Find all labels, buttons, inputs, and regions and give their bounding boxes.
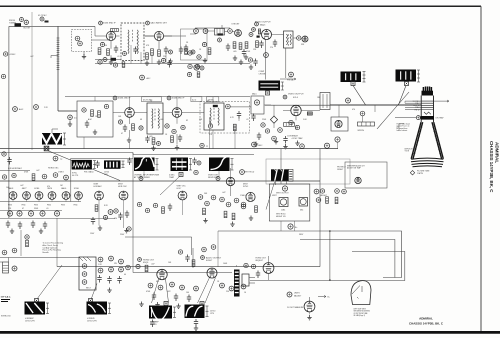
- svg-text:5W: 5W: [114, 263, 117, 265]
- svg-text:6AL5 RATIO DET: 6AL5 RATIO DET: [151, 22, 168, 25]
- svg-text:+105: +105: [288, 77, 292, 79]
- label W2: [87, 318, 97, 323]
- plug P1: [351, 82, 355, 86]
- wire bus y181: [0, 180, 320, 182]
- tube V407 phase det: [95, 191, 104, 200]
- wire grid lead long: [404, 101, 406, 103]
- wire resp stems: [144, 171, 219, 176]
- svg-text:4.5: 4.5: [74, 118, 77, 120]
- resistor R202: [98, 111, 101, 118]
- resistor R201: [91, 110, 94, 117]
- pointer V501 to photo W3 right: [166, 279, 169, 303]
- bracket sync photo: [93, 161, 96, 169]
- ground m1: [139, 302, 143, 307]
- wire plus105: [280, 78, 296, 80]
- test point focus2: [287, 292, 292, 297]
- test point u3: [211, 245, 216, 250]
- test point v4: [289, 120, 293, 124]
- svg-text:220: 220: [163, 56, 166, 58]
- test point TP1: [20, 18, 24, 22]
- wire bus y267: [57, 266, 320, 268]
- CRT base cap: [422, 91, 434, 96]
- wire loop B: [300, 240, 395, 278]
- test point rect a: [82, 264, 87, 269]
- svg-text:470: 470: [47, 186, 50, 188]
- test point V202 a: [165, 124, 169, 128]
- wire hosc wiring: [99, 200, 124, 228]
- capacitor C204: [237, 111, 241, 119]
- resistor R407: [162, 207, 165, 214]
- test point u1: [178, 250, 182, 254]
- svg-text:6AU6: 6AU6: [61, 187, 67, 190]
- svg-text:TRAP: TRAP: [169, 176, 175, 179]
- peaking coil box L3: [320, 93, 330, 110]
- wire audio vert 1: [265, 40, 267, 80]
- yoke box: [331, 117, 348, 131]
- ground row2 a: [10, 229, 14, 234]
- black mark M1: [111, 58, 117, 61]
- resistor R501: [145, 265, 148, 272]
- ground m3: [176, 304, 180, 309]
- tube V102 ratio det: [154, 31, 163, 40]
- pointer photo B: [160, 177, 180, 196]
- test point resp A: [139, 177, 143, 181]
- svg-text:VIDEO OUTPUT: VIDEO OUTPUT: [288, 94, 304, 96]
- photo waveform horiz sawtooth: [25, 302, 46, 315]
- capacitor C603: [117, 276, 121, 284]
- tube V410 vert osc: [178, 191, 187, 200]
- plug photo W4: [200, 302, 204, 306]
- resistor R103: [158, 50, 161, 57]
- capacitor C401: [118, 213, 122, 221]
- svg-text:117 V.A.C.: 117 V.A.C.: [1, 296, 12, 299]
- svg-text:6U8 HORIZ AFC: 6U8 HORIZ AFC: [8, 167, 23, 170]
- svg-text:82: 82: [186, 120, 188, 122]
- resistor R107: [245, 42, 248, 49]
- wire tp stem: [327, 142, 338, 149]
- resistor R104 volume control: [215, 29, 225, 36]
- svg-text:4.5MC: 4.5MC: [10, 54, 16, 56]
- label cage note: [276, 214, 286, 218]
- border bottom edge: [0, 331, 500, 334]
- video det shield dashed box: [200, 102, 250, 134]
- capacitor C105: [273, 40, 277, 48]
- test point J1 tip: [75, 36, 80, 41]
- capacitor C506: [194, 319, 198, 327]
- component value labels group 2: [6, 185, 328, 294]
- photo bar pattern: [104, 160, 121, 168]
- capacitor C202: [123, 125, 127, 133]
- test point sound if: [99, 21, 103, 25]
- wire yoke diagonal lead: [48, 151, 121, 181]
- wire delay line tap: [51, 56, 58, 59]
- transformer T102 quad coil: [284, 31, 294, 48]
- resistor R206 brightness: [307, 112, 312, 115]
- ground jack: [82, 54, 86, 59]
- svg-text:AGC: AGC: [19, 108, 24, 111]
- test point de-emphasis: [228, 29, 233, 34]
- label crt note: [397, 123, 411, 133]
- black mark mixer: [218, 33, 223, 35]
- test point V104 grid: [249, 33, 253, 37]
- test point resp C: [216, 177, 220, 181]
- frequency box 42.25MC: [191, 97, 202, 102]
- capacitor C503: [187, 295, 191, 303]
- label ion trap box: [347, 165, 365, 170]
- test point vo1: [137, 202, 141, 206]
- svg-text:UNITS: UNITS: [294, 293, 300, 295]
- ground hosc 1: [98, 226, 102, 231]
- svg-text:6AQ5: 6AQ5: [260, 23, 266, 26]
- label W4: [210, 311, 215, 316]
- test point ho: [138, 258, 142, 262]
- test point bias: [248, 58, 252, 62]
- svg-text:6V6GT: 6V6GT: [206, 260, 213, 262]
- svg-text:PIN 12: PIN 12: [414, 109, 419, 111]
- wire hv bus drop: [339, 105, 375, 122]
- bracket resp B: [189, 159, 192, 171]
- test point in1: [2, 250, 7, 255]
- test point h5: [64, 175, 69, 180]
- test point B plus: [288, 224, 293, 229]
- test point vert lin 2: [342, 189, 347, 194]
- label hor osc: [118, 184, 127, 189]
- wire loop C: [250, 252, 405, 281]
- resistor R105: [233, 42, 236, 49]
- ground m2: [155, 302, 159, 307]
- resistor R101: [107, 49, 110, 56]
- capacitor C502: [174, 294, 178, 302]
- wire left rail vertical: [8, 26, 10, 218]
- resistor R205: [233, 124, 236, 131]
- picture tube side view: [351, 281, 371, 305]
- svg-text:LEFT SIDE VIEW: LEFT SIDE VIEW: [354, 309, 367, 311]
- capacitor C109: [242, 49, 246, 57]
- svg-text:T3: T3: [207, 101, 209, 103]
- capacitor C106: [253, 59, 257, 67]
- capacitor C304: [7, 157, 11, 165]
- test point B+ boost: [346, 98, 351, 103]
- test point audio takeoff: [203, 29, 208, 34]
- test point mx3: [191, 50, 195, 54]
- tube V404 3BZ6 heater: [48, 192, 56, 200]
- ground sync: [249, 216, 253, 221]
- svg-text:HORIZ OSC: HORIZ OSC: [48, 168, 59, 170]
- resistor R404: [203, 208, 206, 215]
- vertical output cage box: [269, 184, 310, 221]
- svg-text:120: 120: [114, 218, 117, 220]
- test point hv2: [251, 264, 255, 268]
- terminal bracket T105: [417, 70, 420, 82]
- test point ps3: [119, 259, 124, 264]
- capacitor C101: [114, 46, 118, 54]
- transformer T502 audio output: [234, 270, 240, 297]
- transformer T202 video det can: [204, 103, 224, 130]
- resistor R115: [197, 72, 200, 78]
- ground disc2: [239, 60, 243, 65]
- wire yoke diag to crt: [377, 92, 409, 129]
- test point row2 4: [40, 211, 45, 216]
- transformer T301 flyback: [271, 169, 293, 181]
- svg-text:VERT OUTPUT: VERT OUTPUT: [276, 193, 290, 195]
- test point m2: [148, 283, 153, 288]
- svg-text:HOR OSC: HOR OSC: [118, 186, 127, 188]
- test point t2: [169, 50, 173, 54]
- wire top row bus: [95, 63, 250, 65]
- capacitor C201: [85, 121, 89, 129]
- resistor R401: [32, 174, 35, 181]
- resistor R114: [122, 62, 125, 68]
- label yoke: [405, 149, 416, 153]
- test point audio out: [255, 22, 259, 26]
- svg-text:be viewed from: be viewed from: [397, 128, 408, 130]
- svg-text:OF PICTURE TUBE: OF PICTURE TUBE: [354, 313, 368, 315]
- svg-text:6DQ6: 6DQ6: [143, 262, 149, 264]
- capacitor C402: [125, 211, 129, 219]
- test point T45: [40, 17, 44, 21]
- wire antenna to rail: [9, 25, 95, 27]
- label resp C: [208, 175, 219, 180]
- test point volume: [194, 29, 199, 34]
- test point pin2A: [289, 72, 294, 77]
- wire ps wiring: [0, 258, 79, 263]
- svg-text:HEIGHT LIN: HEIGHT LIN: [276, 216, 286, 218]
- bracket W2: [108, 303, 111, 314]
- wire hv rect leads: [268, 256, 270, 280]
- svg-text:DO NOT MEASURE: DO NOT MEASURE: [287, 306, 304, 309]
- test point 6.3V: [335, 137, 340, 142]
- tube V501 horiz output: [157, 269, 167, 279]
- photo marker bands: [171, 158, 189, 172]
- wire IF row top bus: [65, 96, 250, 98]
- test point ps5: [109, 267, 114, 272]
- wire y237 link: [125, 237, 192, 255]
- photo waveform audio: [185, 305, 205, 319]
- test point hosc d: [103, 215, 107, 219]
- capacitor C110: [167, 60, 171, 68]
- svg-text:.047: .047: [151, 264, 155, 266]
- plug photo W3: [164, 302, 168, 306]
- test point t1: [123, 52, 127, 56]
- tube V103a triode: [235, 30, 242, 37]
- label focus note: [43, 242, 63, 255]
- wire delay tap stem: [69, 120, 71, 123]
- capacitor C207: [145, 136, 149, 144]
- test point n2: [226, 202, 231, 207]
- wire cage bus: [217, 231, 219, 267]
- tube V403 6CB6 heater: [35, 192, 43, 200]
- label crt type: [417, 171, 430, 175]
- ground r mid: [203, 218, 207, 223]
- tube V203 video output: [291, 105, 301, 115]
- component value labels group 1: [30, 42, 355, 122]
- pointer to photo W2: [91, 284, 97, 300]
- converter test point M1: [24, 20, 28, 24]
- transformer T101 sound IF: [121, 23, 144, 61]
- CRT neck walls: [421, 96, 433, 123]
- wire main bus y148: [0, 148, 338, 150]
- svg-text:250: 250: [226, 291, 229, 293]
- tube V408 horiz osc: [119, 191, 128, 200]
- svg-text:40: 40: [124, 274, 126, 276]
- tube V305 phase det: [355, 177, 361, 183]
- phono jack dashed box: [72, 30, 92, 52]
- svg-text:.01: .01: [46, 208, 49, 210]
- test point video out: [283, 95, 287, 99]
- wire audio link: [272, 35, 303, 39]
- wire loop A: [218, 231, 402, 278]
- socket V301 vertical output: [279, 198, 288, 207]
- svg-text:4.5 MC TRAP: 4.5 MC TRAP: [292, 137, 304, 140]
- resistor R110: [98, 48, 101, 55]
- test point V105: [264, 53, 269, 58]
- wire video wiring: [264, 105, 320, 130]
- svg-text:PIN4: PIN4: [47, 205, 51, 207]
- wire bus y272: [133, 272, 232, 274]
- svg-text:.01: .01: [117, 56, 120, 58]
- wire rail x133: [132, 153, 134, 273]
- svg-text:ADMIRAL: ADMIRAL: [495, 142, 500, 163]
- ground t2: [168, 59, 172, 64]
- diode X201 black mark: [213, 105, 218, 107]
- svg-text:T2: T2: [150, 101, 152, 103]
- svg-text:.047: .047: [222, 192, 226, 194]
- test point rect c: [82, 280, 87, 285]
- svg-text:12B4: 12B4: [281, 210, 285, 212]
- tube V405 6AU6 heater: [62, 192, 70, 200]
- test point v1: [261, 123, 265, 127]
- test point h4: [53, 173, 58, 178]
- labels tube row1 bottom: [8, 205, 77, 207]
- svg-text:16: 16: [244, 292, 246, 294]
- test point sub8: [103, 58, 107, 62]
- svg-text:6CB6 3RD IF: 6CB6 3RD IF: [172, 98, 185, 100]
- svg-text:3CB6: 3CB6: [74, 188, 80, 190]
- svg-text:AT TUNER MIXER: AT TUNER MIXER: [134, 176, 150, 179]
- svg-text:60 CPS: 60 CPS: [72, 175, 79, 177]
- test point vert hold 2: [335, 189, 340, 194]
- test point h3: [42, 174, 47, 179]
- ground V101 cathode: [109, 60, 113, 65]
- bracket W3: [173, 307, 176, 318]
- svg-text:CHASSIS 14YP3B, BK, C: CHASSIS 14YP3B, BK, C: [489, 141, 494, 193]
- label audio out2: [206, 257, 222, 263]
- wire V201 wiring: [113, 113, 147, 138]
- svg-text:.005: .005: [149, 136, 153, 138]
- wire rail x320: [319, 149, 321, 267]
- wire crt video feed: [265, 104, 421, 106]
- wire damper leads: [310, 295, 327, 301]
- svg-text:BOOST: BOOST: [24, 28, 31, 30]
- tube V202 3rd IF: [172, 108, 182, 118]
- resistor R111: [146, 53, 149, 60]
- ground row2 b: [39, 229, 43, 234]
- capacitor C507: [256, 271, 260, 279]
- pointer V502 to photo W4 right: [205, 278, 216, 304]
- wire audio couple: [190, 31, 235, 34]
- diamond sound takeoff X1: [270, 116, 277, 123]
- wire heater stubs: [13, 199, 79, 201]
- wire V102 leads: [145, 36, 172, 49]
- photo video response: [209, 156, 230, 171]
- svg-text:47: 47: [22, 208, 24, 210]
- capacitor C203: [178, 135, 182, 143]
- resistor R108: [256, 41, 259, 48]
- plug photo W2: [89, 299, 93, 303]
- capacitor C405: [31, 221, 35, 229]
- wire IF bus risers: [95, 97, 213, 108]
- plug photo B: [179, 173, 183, 177]
- svg-text:PIN3: PIN3: [34, 205, 38, 207]
- capacitor C406: [43, 222, 47, 230]
- test point sub1: [98, 60, 102, 64]
- photo IF response curve: [134, 156, 155, 171]
- frequency box 45.75MC: [142, 97, 162, 102]
- rectifier box: [79, 257, 96, 290]
- resistor R113: [185, 49, 188, 55]
- CRT funnel hatching: [413, 127, 442, 154]
- ground ps: [107, 288, 111, 293]
- wire noise wiring: [230, 168, 232, 196]
- terminal bracket yoke: [63, 133, 66, 145]
- test point ps4: [98, 268, 103, 273]
- resistor R112: [208, 48, 211, 55]
- test point sub6: [195, 64, 199, 68]
- high voltage cage box: [266, 159, 350, 184]
- balun transformer L1: [15, 23, 22, 27]
- terminal bracket T104: [363, 72, 366, 83]
- label resp A: [134, 174, 160, 180]
- test point if2: [157, 142, 161, 146]
- svg-text:270: 270: [270, 47, 273, 49]
- wire focus drop: [20, 230, 22, 256]
- CRT ion trap band: [421, 116, 435, 120]
- test point v5: [295, 125, 299, 129]
- test point m4: [170, 282, 175, 287]
- bracket resp C: [231, 159, 234, 171]
- test point V201 grid: [118, 120, 122, 124]
- label bar photo: [104, 172, 109, 176]
- svg-text:68: 68: [140, 119, 142, 121]
- wire V101 plate: [110, 41, 112, 60]
- wire bus y170: [0, 169, 30, 171]
- test point row2 3: [28, 211, 33, 216]
- wire secondary bus y152: [0, 153, 254, 155]
- ground t1: [145, 61, 149, 66]
- svg-text:1 MEG: 1 MEG: [240, 195, 246, 197]
- test point height: [314, 189, 319, 194]
- test point m6: [194, 286, 199, 291]
- test point 3rd IF: [167, 96, 171, 100]
- test point in2: [12, 248, 17, 253]
- svg-text:ION TRAP: ION TRAP: [436, 117, 445, 120]
- transformer T103 audio output: [259, 81, 281, 91]
- pointer to photo W1: [37, 265, 62, 299]
- test point disc2: [202, 42, 206, 46]
- sync box: [251, 96, 264, 114]
- label W3: [150, 322, 159, 327]
- test point b plus bus: [272, 136, 277, 141]
- test point sub7: [187, 72, 191, 76]
- test point hosc a: [108, 210, 113, 215]
- test point r1: [198, 195, 203, 200]
- test point sync: [254, 100, 259, 105]
- speaker terminal box: [242, 274, 249, 286]
- test point hv: [360, 111, 365, 116]
- photo waveform vertical sweep: [149, 306, 172, 320]
- svg-text:6CB6 2ND IF: 6CB6 2ND IF: [118, 98, 131, 100]
- svg-text:PIN3: PIN3: [61, 205, 65, 207]
